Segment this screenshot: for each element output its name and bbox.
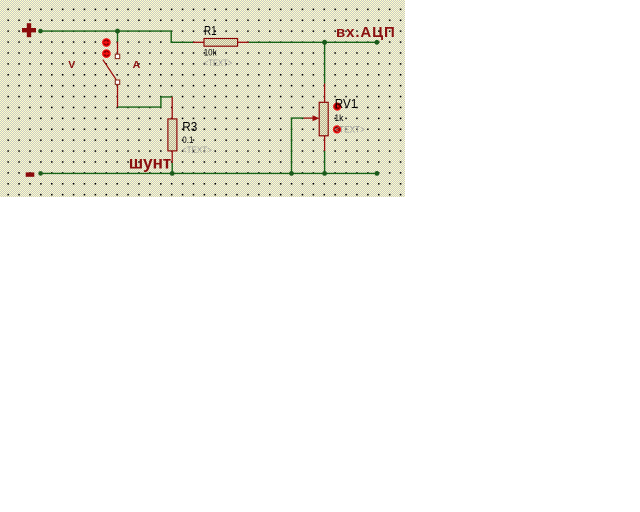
svg-text:A: A [133,59,141,71]
svg-text:<TEXT>: <TEXT> [182,145,212,155]
svg-text:R3: R3 [182,119,197,134]
svg-text:R1: R1 [204,23,217,38]
svg-text:<TEXT>: <TEXT> [334,124,365,134]
svg-text:шунт: шунт [129,153,171,173]
svg-text:V: V [68,59,75,71]
svg-text:вх.АЦП: вх.АЦП [336,24,396,41]
svg-text:10k: 10k [204,48,217,58]
svg-text:<TEXT>: <TEXT> [204,58,232,68]
svg-text:0.1: 0.1 [182,135,193,145]
svg-text:RV1: RV1 [335,96,358,111]
svg-text:1k: 1k [334,113,344,123]
